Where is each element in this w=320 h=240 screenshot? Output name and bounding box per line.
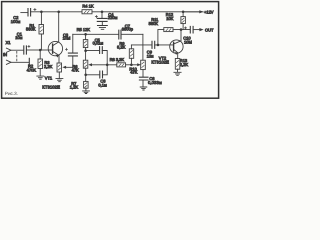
resistor R13 2.2K bbox=[175, 59, 180, 73]
node rail-R1 bbox=[40, 11, 43, 14]
svg-text:OUT: OUT bbox=[205, 27, 214, 32]
svg-text:47K: 47K bbox=[130, 70, 137, 75]
resistor R4 1K (in rail) bbox=[82, 10, 92, 14]
resistor R2 470K bbox=[38, 50, 43, 76]
OUT arrow bbox=[199, 28, 203, 31]
svg-text:13н: 13н bbox=[147, 54, 154, 59]
resistor R8 3.3K bbox=[117, 63, 126, 67]
node R6/R7/C8 bbox=[84, 74, 87, 77]
shield dashed line bbox=[16, 51, 18, 62]
svg-text:10М: 10М bbox=[184, 39, 192, 44]
capacitor C2 bbox=[21, 8, 36, 16]
svg-text:IN: IN bbox=[3, 52, 7, 57]
ground (R3) bbox=[56, 79, 63, 82]
svg-text:R5 12K: R5 12K bbox=[77, 27, 91, 32]
ground (R7) bbox=[83, 91, 90, 94]
node rail-VT1 collector bbox=[57, 11, 60, 14]
svg-text:6800p: 6800p bbox=[122, 27, 134, 32]
svg-text:0,1м: 0,1м bbox=[98, 83, 107, 88]
wiper arrow R6 bbox=[92, 64, 117, 66]
svg-text:470K: 470K bbox=[27, 67, 37, 72]
svg-text:220м: 220м bbox=[108, 15, 118, 20]
connector X1 pin1 (signal) bbox=[6, 48, 23, 52]
svg-text:47K: 47K bbox=[72, 67, 79, 72]
svg-text:2,2K: 2,2K bbox=[180, 62, 189, 67]
node R8/R9 bbox=[130, 64, 133, 67]
svg-text:Рис.3.: Рис.3. bbox=[5, 91, 18, 96]
wiper wire R3-C3 bbox=[66, 57, 73, 68]
svg-text:0,033м: 0,033м bbox=[148, 80, 162, 85]
capacitor C7 6800p bbox=[119, 30, 121, 39]
capacitor C6 0.033M bbox=[139, 77, 148, 87]
svg-text:8,2K: 8,2K bbox=[117, 45, 126, 50]
node collector/C10 bbox=[180, 28, 183, 31]
wire R11 right to collector node bbox=[173, 29, 190, 31]
resistor R10 47K (trimmer) bbox=[141, 60, 146, 77]
svg-text:R8 3,3K: R8 3,3K bbox=[110, 57, 125, 62]
resistor R9 8.2K bbox=[129, 45, 133, 65]
svg-text:10м: 10м bbox=[15, 35, 22, 40]
svg-text:10М: 10М bbox=[63, 36, 71, 41]
capacitor C1 10M bbox=[24, 45, 40, 54]
node C1/R1/R2/base bbox=[39, 49, 42, 52]
svg-text:1,2K: 1,2K bbox=[70, 85, 79, 90]
caption bbox=[5, 91, 18, 96]
svg-text:R4 1K: R4 1K bbox=[82, 3, 93, 8]
ground (R2) bbox=[37, 76, 44, 79]
node R5/R6/C5 bbox=[84, 49, 87, 52]
svg-text:КТ3102Е: КТ3102Е bbox=[42, 85, 60, 90]
svg-text:10K: 10K bbox=[166, 16, 173, 21]
node W1-R5 bbox=[84, 33, 87, 36]
ground (C4) bbox=[97, 26, 107, 30]
svg-text:X1: X1 bbox=[6, 40, 12, 45]
wire W1 collector-net bbox=[73, 33, 119, 35]
wire R9-C9-base VT2 bbox=[131, 44, 173, 46]
capacitor C4 220M bbox=[95, 12, 107, 25]
resistor R11 560K bbox=[164, 28, 173, 32]
+12V supply arrow bbox=[183, 11, 201, 13]
resistor R6 47K (trimmer) bbox=[83, 51, 88, 75]
svg-text:560K: 560K bbox=[26, 26, 36, 31]
ground (R13) bbox=[174, 72, 181, 75]
capacitor C8 0.1M bbox=[86, 65, 108, 78]
svg-text:+12V: +12V bbox=[204, 9, 214, 14]
wire top rail bbox=[31, 11, 203, 13]
transistor VT2 KT3102E bbox=[170, 30, 183, 59]
node base/R11 bbox=[157, 44, 160, 47]
svg-text:0,01м: 0,01м bbox=[93, 40, 104, 45]
border frame bbox=[2, 2, 219, 99]
node rail-C4 bbox=[101, 11, 104, 14]
resistor R12 10K bbox=[181, 12, 186, 30]
resistor R7 1.2K bbox=[84, 75, 89, 91]
resistor R1 560K bbox=[39, 12, 44, 50]
capacitor C5 0.01M bbox=[86, 47, 108, 65]
capacitor C3 10M bbox=[65, 34, 77, 56]
svg-text:560K: 560K bbox=[149, 21, 159, 26]
svg-text:2,2K: 2,2K bbox=[44, 64, 53, 69]
svg-text:VT1: VT1 bbox=[45, 75, 53, 80]
connector X1 pin2 (shield) bbox=[6, 58, 29, 66]
capacitor C10 10M bbox=[184, 26, 200, 33]
transistor VT1 KT3102E bbox=[48, 12, 62, 63]
ground (C6) bbox=[140, 87, 147, 90]
svg-text:КТ3102Е: КТ3102Е bbox=[151, 59, 169, 64]
node rail-R12 bbox=[182, 11, 185, 14]
wire C7 to R10 top bbox=[142, 34, 144, 60]
svg-text:100м: 100м bbox=[11, 19, 21, 24]
wire base VT1 bbox=[40, 49, 52, 51]
node C5/C8/R8 wire bbox=[106, 64, 109, 67]
resistor R3 2.2K (trimmer) bbox=[57, 63, 62, 78]
resistor R5 12K bbox=[83, 34, 88, 50]
capacitor C9 13n bbox=[152, 41, 155, 48]
wiper wire to R10 bbox=[126, 64, 138, 66]
wire R11 left leg bbox=[158, 30, 164, 45]
